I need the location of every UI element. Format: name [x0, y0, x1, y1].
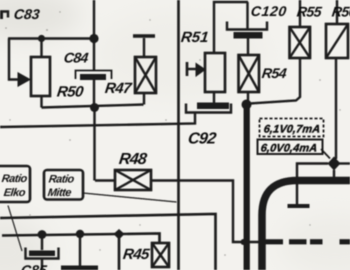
- node big junction below R54: [242, 100, 252, 110]
- value label 6,1V 0,7mA: [260, 119, 324, 137]
- wire thick vertical signal line: [244, 104, 250, 270]
- resistor R54: [239, 55, 260, 92]
- capacitor C92: [186, 104, 231, 113]
- wire diamond down into shield: [333, 170, 335, 178]
- svg-text:Elko: Elko: [3, 187, 26, 199]
- wire from top edge down to R51: [214, 2, 248, 53]
- terminal T-bar above R47: [133, 34, 155, 38]
- svg-text:R48: R48: [118, 150, 148, 168]
- node junction on top wire above R50: [38, 35, 45, 42]
- node junction C84 top: [89, 34, 98, 43]
- wire long horizontal lower with corner down: [0, 214, 216, 270]
- value label 6,0V 0,4mA: [258, 140, 323, 155]
- pointer line from Ratio Elko to C85: [8, 206, 22, 252]
- label box Ratio Mitte: [44, 170, 83, 200]
- svg-text:6,0V0,4mA: 6,0V0,4mA: [260, 143, 318, 155]
- plate terminal bar: [288, 204, 310, 208]
- node junction cap2: [76, 230, 84, 238]
- resistor R55: [299, 0, 301, 27]
- svg-text:Ratio: Ratio: [1, 173, 28, 185]
- node junction C85: [38, 230, 47, 239]
- wire long horizontal mid-left: [0, 113, 195, 128]
- svg-text:R51: R51: [180, 29, 210, 46]
- node diamond junction: [328, 157, 341, 171]
- svg-text:R55: R55: [296, 4, 323, 20]
- wire vertical from C84 node down to R48: [93, 111, 95, 181]
- wire from diamond to right edge: [339, 162, 350, 164]
- capacitor C120: [246, 2, 248, 29]
- wire from diamond left and down to plate: [297, 164, 328, 205]
- wire vertical from top edge to C84: [93, 0, 95, 70]
- svg-text:C83: C83: [13, 6, 41, 22]
- svg-text:R56: R56: [331, 4, 350, 20]
- capacitor C84: [76, 71, 112, 80]
- resistor R56 (cut at right edge): [336, 0, 338, 24]
- wire thick dashed line bottom right: [265, 239, 350, 244]
- resistor R45: [152, 243, 169, 267]
- svg-text:C92: C92: [187, 130, 217, 148]
- capacitor C85: [41, 239, 43, 251]
- resistor R48: [115, 170, 151, 190]
- capacitor (cut at left edge, top-left corner): [0, 12, 8, 18]
- wire top-left horizontal: [8, 37, 94, 39]
- svg-text:R50: R50: [56, 84, 85, 101]
- svg-text:6,1V0,7mA: 6,1V0,7mA: [263, 124, 321, 136]
- node junction C84 bottom: [90, 103, 99, 112]
- wire R48 left: [95, 179, 115, 181]
- wire R48 right down to thick line: [151, 181, 261, 243]
- capacitor below second node (cut at bottom): [79, 234, 81, 266]
- pointer line from value box to node: [321, 149, 330, 159]
- svg-text:R54: R54: [261, 65, 288, 81]
- wire left branch down to arrow: [9, 39, 18, 80]
- wire bottom rail: [2, 234, 160, 244]
- label box Ratio Elko: [0, 166, 30, 202]
- svg-text:C120: C120: [250, 3, 288, 19]
- svg-text:C84: C84: [63, 50, 90, 66]
- arrow of variable resistor R51: [186, 62, 189, 76]
- pointer line from Ratio Mitte to vertical wire: [83, 193, 177, 202]
- arrow of variable resistor R50: [18, 72, 32, 87]
- resistor R47: [135, 57, 156, 93]
- wire long vertical full height: [177, 0, 180, 270]
- wire R50 top stub: [40, 39, 42, 58]
- svg-text:C85: C85: [20, 262, 48, 270]
- svg-text:Ratio: Ratio: [48, 174, 75, 186]
- resistor R51: [205, 53, 225, 92]
- node junction R48 wire on thick line: [241, 239, 247, 245]
- resistor R50: [31, 57, 50, 96]
- svg-text:Mitte: Mitte: [47, 187, 72, 199]
- svg-text:R47: R47: [104, 80, 133, 97]
- wire from junction to R55: [250, 58, 300, 104]
- shield thick curved line: [262, 181, 350, 270]
- wire R50 bottom stub: [40, 96, 42, 108]
- svg-text:R45: R45: [122, 246, 151, 263]
- wire bottom of R50/C84/R47 group: [42, 105, 144, 108]
- node junction with vertical drop: [114, 229, 125, 240]
